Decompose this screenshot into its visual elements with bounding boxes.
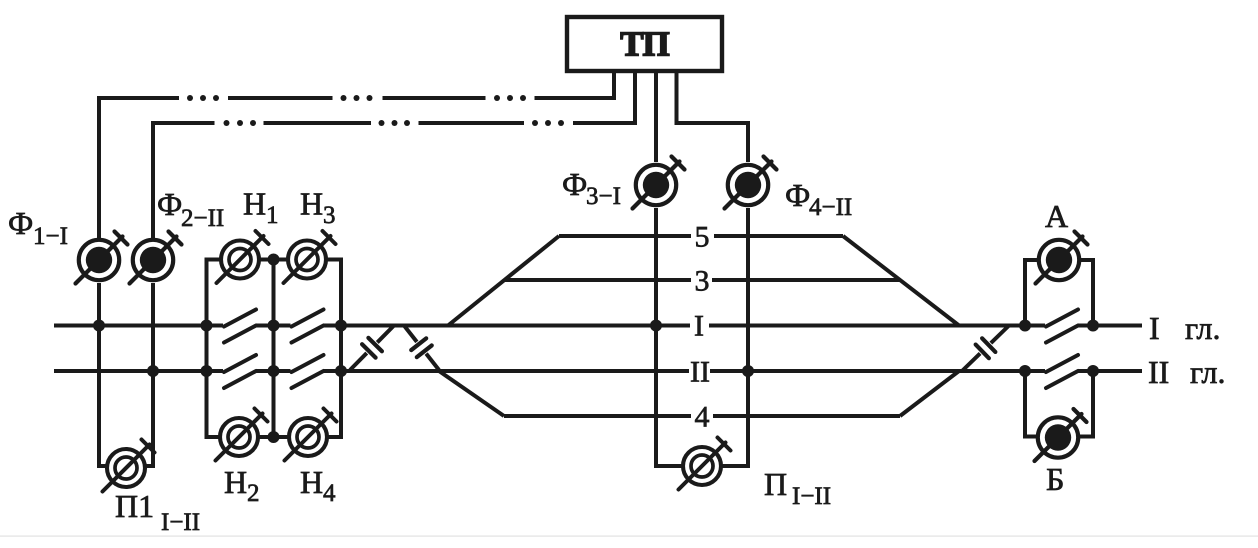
disconnector H4 — [289, 418, 327, 456]
wire H top bus — [207, 258, 221, 262]
wire A right riser — [1091, 260, 1095, 326]
wire B bottom bus — [1023, 435, 1038, 439]
breaker A — [1039, 240, 1079, 280]
svg-text:А: А — [1045, 198, 1068, 234]
wire feeder1 drop — [612, 71, 616, 100]
wire F2 to track II — [151, 283, 155, 468]
disconnector H2 — [220, 418, 258, 456]
switch track II right — [1046, 355, 1078, 372]
svg-text:Н: Н — [224, 464, 247, 500]
wire F4 to P bus — [746, 208, 750, 468]
svg-text:ТП: ТП — [620, 25, 669, 64]
wire feeder4 drop — [677, 71, 749, 162]
svg-text:Б: Б — [1046, 461, 1064, 497]
svg-text:I−II: I−II — [792, 483, 831, 510]
wire feeder1 corner drop — [97, 96, 101, 238]
breaker F1-I — [79, 240, 119, 280]
svg-text:4: 4 — [695, 401, 710, 434]
wire H mid riser — [272, 260, 276, 438]
svg-text:4: 4 — [323, 480, 336, 507]
wire P1 right stub — [146, 464, 153, 468]
node F2 x track II — [147, 365, 159, 377]
breaker F4-II — [728, 165, 768, 205]
wire right throat from track 4 — [900, 371, 959, 416]
wire A left riser — [1023, 260, 1027, 326]
wire track I — [54, 324, 223, 328]
wire B left riser — [1023, 371, 1027, 437]
node H-right x track II — [335, 365, 347, 377]
svg-text:5: 5 — [695, 221, 710, 254]
wire F3 to P bus — [654, 208, 658, 468]
wire left throat to track 4 — [439, 371, 504, 416]
wire track 4 — [504, 414, 691, 418]
disconnector H1 — [221, 241, 259, 279]
svg-text:гл.: гл. — [1185, 310, 1220, 346]
node A-right x track I — [1087, 320, 1099, 332]
svg-text:1: 1 — [266, 202, 279, 229]
node H-left x track II — [201, 365, 213, 377]
wire H right riser — [339, 258, 343, 440]
insulated overlap left leg B — [404, 326, 417, 342]
svg-text:3: 3 — [323, 202, 336, 229]
node H-left x track I — [201, 320, 213, 332]
wire F1 to track I — [97, 283, 101, 468]
svg-text:II: II — [690, 356, 710, 389]
disconnector H3 — [288, 241, 326, 279]
disconnector P I-II — [683, 447, 721, 485]
switch track I left — [224, 310, 256, 327]
svg-text:I: I — [694, 310, 704, 343]
svg-text:3: 3 — [695, 265, 710, 298]
svg-text:Н: Н — [300, 186, 323, 222]
node H bottom bus — [268, 431, 280, 443]
svg-text:Н: Н — [243, 186, 266, 222]
disconnector P1 I-II — [107, 449, 145, 487]
wire feeder2 corner drop — [151, 121, 155, 238]
svg-text:Н: Н — [300, 464, 323, 500]
node A-left x track I — [1019, 320, 1031, 332]
wire right throat from track 5 — [843, 236, 959, 326]
wire track 5 — [559, 234, 691, 238]
switch track II left — [224, 355, 256, 372]
insulated overlap left leg A — [377, 326, 394, 343]
wire dash-dot supply line 1 — [99, 96, 179, 100]
svg-text:I−II: I−II — [161, 509, 200, 536]
node F1 x track I — [93, 320, 105, 332]
wire dash-dot supply line 2 — [153, 121, 215, 125]
breaker F2-II — [133, 240, 173, 280]
svg-text:Ф: Ф — [562, 166, 587, 202]
svg-text:4−II: 4−II — [809, 194, 852, 221]
wire feeder2 drop — [633, 71, 637, 125]
node F3 x track I — [650, 320, 662, 332]
switch track I mid — [292, 310, 324, 327]
wire H left riser — [205, 258, 209, 440]
node H-mid x track I — [268, 320, 280, 332]
breaker B — [1038, 417, 1078, 457]
node B-right x track II — [1087, 365, 1099, 377]
node H-right x track I — [335, 320, 347, 332]
svg-text:гл.: гл. — [1190, 354, 1225, 390]
svg-text:П1: П1 — [115, 488, 154, 524]
wire P1 left stub — [99, 464, 106, 468]
wire B right riser — [1091, 371, 1095, 437]
wire P bus — [654, 464, 682, 468]
svg-text:2−II: 2−II — [181, 205, 224, 232]
svg-text:Ф: Ф — [785, 177, 810, 213]
node H-mid x track II — [268, 365, 280, 377]
svg-text:I: I — [1149, 310, 1160, 346]
breaker F3-I — [636, 165, 676, 205]
switch track II mid — [292, 355, 324, 372]
node H top bus — [268, 254, 280, 266]
svg-text:1−I: 1−I — [33, 223, 68, 250]
node B-left x track II — [1019, 365, 1031, 377]
wire left throat to tracks 3,5 — [448, 236, 559, 326]
switch track I right — [1046, 310, 1078, 327]
substation TP box — [567, 17, 722, 71]
node F4 x track II — [742, 365, 754, 377]
svg-text:2: 2 — [247, 480, 260, 507]
svg-text:П: П — [764, 466, 787, 502]
svg-text:3−I: 3−I — [586, 183, 621, 210]
wire A top bus — [1023, 258, 1039, 262]
wire track 3 — [504, 278, 691, 282]
page rule (faint) — [0, 535, 1258, 536]
insulated overlap right leg — [991, 326, 1009, 344]
svg-text:II: II — [1148, 354, 1169, 390]
wire H bottom bus — [207, 435, 220, 439]
svg-text:Ф: Ф — [157, 186, 182, 222]
svg-text:Ф: Ф — [8, 205, 33, 241]
wire feeder3 drop — [654, 71, 658, 162]
wire track II — [54, 369, 223, 373]
